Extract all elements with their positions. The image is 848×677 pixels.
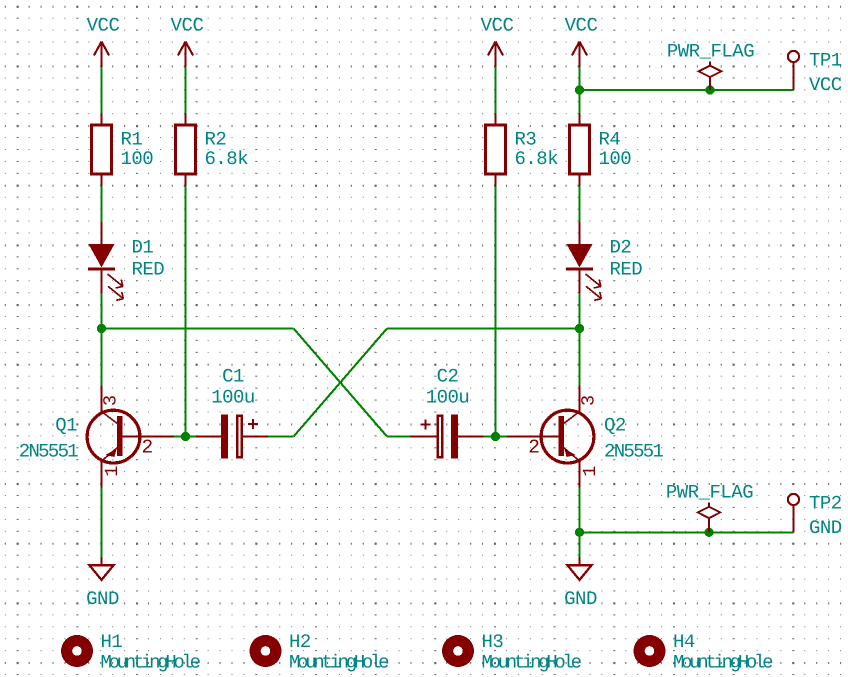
- pin 3 of Q2 (collector): [579, 395, 600, 406]
- junction node C: [181, 432, 190, 441]
- label PWR_FLAG: [667, 40, 754, 62]
- value MountingHole of H4: [673, 652, 773, 674]
- label H3: [482, 631, 504, 653]
- value MountingHole of H1: [101, 652, 201, 674]
- wire D2 to node B: [578, 293, 580, 329]
- junction node A (Q1 collector): [97, 324, 106, 333]
- svg-text:C2: C2: [437, 366, 459, 388]
- value 100 of R1: [121, 148, 154, 170]
- label TP1: [809, 50, 842, 72]
- wire node F to TP1: [580, 89, 794, 91]
- wire node E to GND: [578, 532, 580, 557]
- wire node E to TP2: [580, 531, 794, 533]
- svg-text:H4: H4: [673, 631, 695, 653]
- svg-text:RED: RED: [132, 259, 165, 281]
- pin 1 of Q2 (emitter): [580, 466, 601, 477]
- capacitor C1: [196, 415, 268, 459]
- mounting hole H2: [250, 635, 282, 667]
- svg-text:VCC: VCC: [87, 15, 120, 37]
- svg-text:TP1: TP1: [809, 50, 842, 72]
- svg-text:D2: D2: [610, 237, 632, 259]
- svg-text:MountingHole: MountingHole: [101, 652, 201, 674]
- svg-text:C1: C1: [222, 366, 244, 388]
- value 2N5551 of Q2: [604, 441, 664, 463]
- wire cross diagonal B: [294, 329, 387, 437]
- test point TP2: [788, 494, 799, 532]
- junction node F (VCC net): [575, 85, 584, 94]
- wire node B to Q2 collector: [578, 329, 580, 386]
- value 100u of C2: [426, 387, 470, 409]
- value RED of D2: [610, 259, 643, 281]
- wire VCC to R3: [494, 67, 496, 114]
- wire cross diagonal A: [294, 329, 387, 437]
- power symbol PWR_FLAG: [698, 503, 721, 533]
- wire node C to C1: [186, 435, 197, 437]
- svg-text:VCC: VCC: [171, 15, 204, 37]
- resistor R4: [570, 114, 590, 187]
- LED D2: [566, 222, 601, 300]
- label TP2: [809, 493, 842, 515]
- label H2: [289, 631, 311, 653]
- wire to node B: [387, 327, 580, 329]
- wire Q1 emitter to GND: [100, 488, 102, 558]
- wire R1 to D1: [100, 186, 102, 222]
- label C2: [437, 366, 459, 388]
- svg-text:GND: GND: [86, 588, 119, 610]
- svg-text:H2: H2: [289, 631, 311, 653]
- wire VCC to R4: [578, 67, 580, 114]
- value GND of TP2: [809, 517, 842, 539]
- svg-text:MountingHole: MountingHole: [673, 652, 773, 674]
- label H4: [673, 631, 695, 653]
- mounting hole H4: [634, 635, 666, 667]
- label GND: [564, 588, 597, 610]
- value 100u of C1: [211, 387, 255, 409]
- junction PWR_FLAG on VCC: [705, 85, 714, 94]
- label H1: [101, 631, 123, 653]
- pin 2 of Q2 (base): [528, 437, 539, 459]
- value 6.8k of R2: [205, 148, 249, 170]
- value MountingHole of H2: [289, 652, 389, 674]
- power symbol VCC (column R1): [87, 15, 120, 68]
- wire R2 to node C: [184, 186, 186, 437]
- value 100 of R4: [599, 148, 632, 170]
- svg-text:GND: GND: [564, 588, 597, 610]
- svg-text:100: 100: [599, 148, 632, 170]
- svg-text:GND: GND: [809, 517, 842, 539]
- wire node D to Q2 base: [496, 435, 508, 437]
- resistor R3: [486, 114, 506, 187]
- wire node A to Q1 collector: [100, 329, 102, 386]
- svg-text:6.8k: 6.8k: [515, 148, 559, 170]
- value MountingHole of H3: [482, 652, 582, 674]
- svg-text:6.8k: 6.8k: [205, 148, 249, 170]
- svg-text:100u: 100u: [211, 387, 255, 409]
- wire D1 to node A: [100, 293, 102, 329]
- resistor R1: [92, 114, 112, 187]
- label R3: [515, 129, 537, 151]
- test point TP1: [788, 51, 799, 90]
- value 6.8k of R3: [515, 148, 559, 170]
- junction node D: [491, 432, 500, 441]
- svg-text:VCC: VCC: [809, 74, 842, 96]
- label D1: [132, 237, 154, 259]
- wire C2 to node D: [484, 435, 496, 437]
- power symbol GND: [90, 557, 114, 580]
- mounting hole H3: [442, 635, 474, 667]
- value RED of D1: [132, 259, 165, 281]
- power symbol VCC (column R2): [171, 15, 204, 68]
- label R4: [599, 129, 621, 151]
- pin 1 of Q1 (emitter): [102, 466, 123, 477]
- junction PWR_FLAG on GND: [704, 528, 713, 537]
- value 2N5551 of Q1: [19, 441, 79, 463]
- transistor Q2: [507, 386, 594, 488]
- label PWR_FLAG: [666, 482, 753, 504]
- wire VCC to R2: [184, 67, 186, 114]
- wire R4 to D2: [578, 186, 580, 222]
- resistor R2: [176, 114, 196, 187]
- svg-text:Q2: Q2: [604, 415, 626, 437]
- svg-text:PWR_FLAG: PWR_FLAG: [666, 482, 753, 504]
- svg-text:2N5551: 2N5551: [604, 441, 664, 463]
- capacitor C2: [411, 415, 484, 459]
- svg-text:1: 1: [580, 466, 601, 477]
- label R1: [121, 129, 143, 151]
- pin 2 of Q1 (base): [142, 437, 153, 459]
- wire Q1 base to node C: [174, 435, 186, 437]
- svg-text:VCC: VCC: [481, 15, 514, 37]
- pin 3 of Q1 (collector): [101, 395, 122, 406]
- svg-text:2: 2: [142, 437, 153, 459]
- svg-text:3: 3: [101, 395, 122, 406]
- svg-text:100u: 100u: [426, 387, 470, 409]
- LED D1: [88, 222, 123, 300]
- label Q2: [604, 415, 626, 437]
- label R2: [205, 129, 227, 151]
- svg-text:PWR_FLAG: PWR_FLAG: [667, 40, 754, 62]
- svg-text:MountingHole: MountingHole: [289, 652, 389, 674]
- wire to C2: [387, 435, 411, 437]
- svg-text:H1: H1: [101, 631, 123, 653]
- wire VCC to R1: [100, 67, 102, 114]
- svg-text:H3: H3: [482, 631, 504, 653]
- junction node E (GND net): [575, 528, 584, 537]
- svg-text:3: 3: [579, 395, 600, 406]
- power symbol PWR_FLAG: [699, 62, 722, 91]
- svg-text:VCC: VCC: [565, 15, 598, 37]
- power symbol VCC (column R4): [565, 15, 598, 68]
- mounting hole H1: [61, 635, 93, 667]
- wire node A horizontal: [102, 327, 294, 329]
- label Q1: [55, 415, 77, 437]
- wire Q2 emitter to node E: [578, 488, 580, 533]
- svg-text:2: 2: [528, 437, 539, 459]
- wire R3 to node D: [494, 186, 496, 437]
- svg-text:Q1: Q1: [55, 415, 77, 437]
- svg-text:100: 100: [121, 148, 154, 170]
- power symbol GND: [568, 557, 592, 580]
- svg-text:2N5551: 2N5551: [19, 441, 79, 463]
- power symbol VCC (column R3): [481, 15, 514, 68]
- label D2: [610, 237, 632, 259]
- transistor Q1: [87, 386, 174, 488]
- svg-text:D1: D1: [132, 237, 154, 259]
- svg-text:MountingHole: MountingHole: [482, 652, 582, 674]
- svg-text:TP2: TP2: [809, 493, 842, 515]
- label C1: [222, 366, 244, 388]
- svg-text:1: 1: [102, 466, 123, 477]
- svg-text:RED: RED: [610, 259, 643, 281]
- wire C1 to cross: [268, 435, 294, 437]
- value VCC of TP1: [809, 74, 842, 96]
- junction node B (Q2 collector): [575, 324, 584, 333]
- label GND: [86, 588, 119, 610]
